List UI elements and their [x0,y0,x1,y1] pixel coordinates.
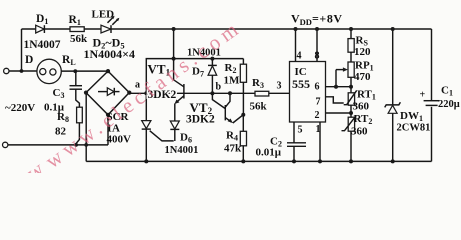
svg-text:47k: 47k [224,143,242,155]
pin1 wire [319,122,321,161]
svg-text:0.01μ: 0.01μ [256,147,282,159]
node C3 tap [73,69,77,73]
wire left vertical from mains L junction up to rail [21,29,23,71]
svg-text:120: 120 [354,46,371,58]
node junction mains L [20,69,24,73]
svg-text:56k: 56k [70,33,88,45]
transistor VT1 collector [174,59,184,87]
wire mains L to lamp [9,70,37,72]
svg-text:6: 6 [315,82,320,93]
wire lamp to bridge top [61,70,108,72]
svg-text:470: 470 [354,71,371,83]
transistor VT2 base bar [224,105,226,120]
wire N riser to bridge bottom vertex [107,115,109,145]
svg-text:5: 5 [298,125,303,136]
SCR gate [150,131,174,141]
potentiometer RP1 470 [348,62,354,77]
resistor chain vertical [350,29,352,39]
svg-text:7: 7 [316,97,321,108]
right edge wire + capacitor C1 220u [431,29,433,101]
node b [210,91,214,95]
svg-text:360: 360 [353,101,370,113]
svg-text:VDD=+8V: VDD=+8V [291,12,343,28]
svg-text:1N4007: 1N4007 [24,39,61,51]
svg-text:2: 2 [315,110,320,121]
node D7 top [210,57,214,61]
svg-text:3: 3 [277,81,282,92]
svg-text:400V: 400V [107,134,132,146]
resistor R3 56k [255,91,269,96]
pin5 wire + capacitor C2 [293,122,295,143]
resistor R2 1M [242,59,244,65]
pin2 wire [326,112,352,114]
lamp D (blanket load) [37,59,61,83]
svg-text:220μ: 220μ [438,99,460,110]
svg-text:56k: 56k [250,101,268,113]
transistor VT2 emitter [225,118,231,122]
resistor R4 47k [242,115,244,132]
svg-text:1: 1 [316,124,321,135]
wire node a bus (bridge+ / VT1 base / b / R3) [129,92,289,94]
svg-text:b: b [216,82,222,93]
diode D7 [211,59,213,66]
svg-text:4: 4 [297,51,302,62]
node R8 to N wire [74,143,78,147]
wire W2 horizontal y58.6 [146,59,243,94]
bridge inner diode [98,91,107,93]
svg-text:+: + [420,90,426,101]
svg-text:~220V: ~220V [5,102,35,114]
svg-text:D: D [25,54,33,66]
diode D1 [36,25,45,33]
SCR [145,93,147,120]
svg-text:1N4001: 1N4001 [165,145,199,156]
node SCR cathode on ground rail [144,159,148,163]
transistor VT2 base wire [212,93,225,108]
wire top rail [22,28,432,30]
terminal mains N [2,142,7,147]
svg-text:2CW81: 2CW81 [397,123,431,134]
terminal mains L [4,68,9,73]
wire mains N [8,144,108,146]
pin7 wire [326,97,344,103]
transistor VT2 collector [225,93,230,107]
diode D6 [170,121,179,129]
thermistor RT2 360 [348,117,354,131]
pin8 wire [316,29,318,62]
resistor R8 82 [77,107,83,123]
node W2/VDD drop [172,57,176,61]
zener DW1 2CW81 [392,29,394,105]
LED [101,25,111,33]
svg-text:LED: LED [92,9,115,21]
svg-text:1N4004×4: 1N4004×4 [84,47,136,61]
bridge rectifier D2~D5 [86,71,129,115]
transistor VT1 base bar [183,84,185,99]
svg-text:3DK2: 3DK2 [186,114,215,126]
resistor R1 56k [70,27,84,32]
svg-text:1M: 1M [224,75,241,87]
thermistor RT1 360 [348,93,354,105]
IC 555 [290,62,326,123]
pin6 wire [326,86,352,88]
node a junction SCR [144,91,148,95]
wire VDD rail drop x173.6 [173,29,175,59]
ground rail [86,160,431,162]
transistor VT1 emitter [176,96,184,103]
svg-text:360: 360 [351,126,368,138]
LED arrows [108,17,114,23]
RP1 wiper [336,69,345,71]
capacitor C3 [75,71,77,85]
pin4 wire [295,29,297,62]
resistor R5 120 [348,39,354,53]
svg-text:555: 555 [292,77,310,91]
svg-text:8: 8 [315,51,320,62]
